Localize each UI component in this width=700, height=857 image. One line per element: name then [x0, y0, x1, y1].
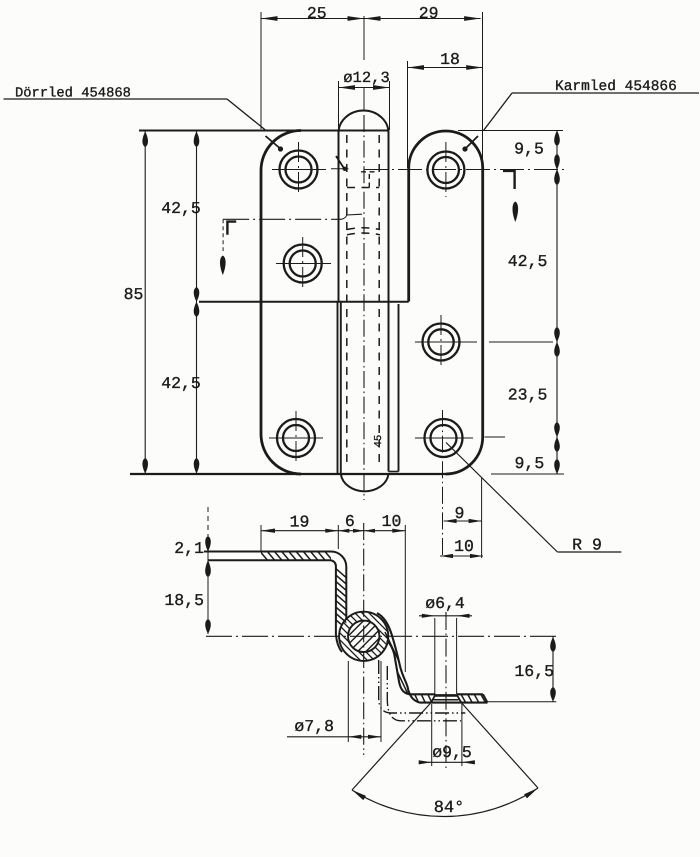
countersink ø6.4 mouth thick line (top face)	[434, 694, 458, 697]
84 degree cone left line	[352, 703, 431, 790]
barrel lower-left double edges	[337, 302, 339, 474]
84 degree arc	[352, 788, 538, 817]
section horizontal centerline (chain)	[206, 635, 557, 637]
front view: frame-leaf plate (Karmled) outline with R9 dome and corner	[409, 131, 483, 474]
countersunk hole centerline	[445, 612, 447, 768]
dashed internal step y=187	[347, 187, 379, 189]
front view: bottom edge line of plates (with extensions)	[130, 473, 446, 475]
svg-text:ø7,8: ø7,8	[294, 717, 334, 736]
svg-text:9,5: 9,5	[515, 454, 545, 473]
svg-text:29: 29	[419, 4, 439, 23]
knuckle/barrel ø12.3: left edge upper	[338, 131, 340, 302]
hole 2 crosshair	[276, 263, 331, 265]
svg-text:18: 18	[440, 50, 460, 69]
front view: door-leaf plate (Dörrled) outline	[261, 131, 301, 475]
section mark left: thick L	[227, 222, 236, 235]
dimension 19/6/10 line	[261, 530, 405, 532]
svg-text:10: 10	[382, 512, 402, 531]
hidden sleeve top arcs (dashed)	[347, 228, 380, 230]
barrel top dome	[339, 111, 389, 133]
section: door leaf bottom face	[208, 559, 330, 561]
svg-text:ø6,4: ø6,4	[425, 594, 465, 613]
barrel bottom dome	[341, 474, 389, 491]
surface check mark on door leaf	[266, 136, 280, 148]
extension for 18	[407, 61, 409, 168]
svg-text:2,1: 2,1	[174, 539, 204, 558]
dimension 85 line	[144, 132, 146, 474]
countersink left slant	[431, 695, 435, 703]
lower knuckle extra edge (frame leaf curl)	[398, 304, 400, 472]
svg-text:23,5: 23,5	[508, 386, 548, 405]
section mark left: arrow teardrop	[220, 256, 226, 276]
dimension 18 line	[408, 67, 483, 69]
ext lines for 19/6/10	[260, 525, 262, 552]
ext bottom right	[491, 473, 564, 475]
section: curl outer circle	[339, 612, 388, 661]
frame hole 3 crosshair, centerline extended to 9/10 dims	[415, 437, 473, 439]
svg-text:10: 10	[454, 537, 474, 556]
front view: top edge line of door leaf (with extension to 85-dim)	[139, 129, 389, 131]
barrel right edge	[388, 131, 390, 472]
ext mid right	[489, 341, 553, 343]
dimension 42.5+42.5 line	[196, 132, 198, 474]
frame leaf hole 3	[425, 419, 463, 457]
dimension 25/29 line	[261, 18, 481, 20]
ext right edge down	[481, 478, 483, 558]
svg-text:25: 25	[307, 4, 327, 23]
section: door leaf inner bend + left edge of vertical web	[330, 560, 342, 652]
frame hole 2 crosshair	[415, 341, 477, 343]
small check on barrel edge	[331, 168, 349, 170]
surface check mark on frame leaf	[467, 136, 479, 148]
hidden pin lines inside barrel (dashed)	[346, 135, 348, 468]
svg-text:42,5: 42,5	[161, 374, 201, 393]
countersink inner line	[434, 699, 459, 701]
svg-text:16,5: 16,5	[514, 662, 554, 681]
door leaf hole 1	[280, 151, 318, 189]
svg-text:9: 9	[455, 504, 465, 523]
section: leaf end slant	[483, 694, 488, 702]
section mark right: thick L	[503, 171, 515, 189]
door leaf hole 3	[277, 419, 315, 457]
door leaf hole 2	[284, 245, 322, 283]
phantom position line B (dash-dot-dot)	[387, 666, 461, 721]
svg-text:9,5: 9,5	[514, 140, 544, 159]
section: frame leaf outer edge (wraps curl top-right, down to flat bottom face)	[377, 613, 488, 703]
dimension 9	[444, 520, 482, 522]
section: flat top face right of countersink	[457, 693, 483, 695]
svg-text:R 9: R 9	[572, 536, 602, 555]
long chain centerline through frame hole 1 to 9.5 dim	[364, 169, 564, 171]
svg-text:19: 19	[290, 513, 310, 532]
phantom position line A (dash-dot-dot)	[379, 660, 466, 713]
extension line left plate edge	[260, 12, 262, 129]
section mark right: arrow teardrop	[512, 202, 518, 223]
svg-text:18,5: 18,5	[164, 591, 204, 610]
leader R 9	[446, 443, 557, 553]
section: pin ø7.8	[348, 621, 379, 652]
extensions for ø12.3	[338, 81, 340, 130]
hole 1 crosshair	[272, 169, 326, 171]
barrel vertical centerline (chain)	[363, 115, 365, 500]
section: door leaf outer bend + right edge of vertical web	[331, 552, 346, 621]
frame leaf hole 1	[427, 152, 464, 189]
small step at knuckle bottom right	[389, 471, 399, 473]
svg-text:ø9,5: ø9,5	[432, 743, 472, 762]
svg-text:45: 45	[373, 435, 385, 448]
countersink right slant	[457, 695, 462, 703]
dimension ø12,3 line	[339, 87, 390, 89]
section: frame leaf inner edge (from curl to flat top face)	[387, 641, 436, 695]
right dim line	[556, 131, 558, 475]
ext top edge right	[458, 130, 563, 132]
dimension 10 (lower)	[440, 555, 483, 557]
section: door leaf top face	[204, 551, 331, 553]
ext hole3 right (short)	[485, 436, 506, 438]
small dashed box in upper barrel	[368, 172, 370, 188]
svg-text:42,5: 42,5	[508, 252, 548, 271]
front view: mid horizontal joint line at 42.5 split	[199, 301, 409, 303]
section mark left: thin corner leg	[222, 219, 224, 251]
svg-text:85: 85	[124, 285, 144, 304]
84 degree cone right line	[461, 703, 538, 788]
svg-text:84°: 84°	[434, 799, 465, 818]
pin vertical centerline	[363, 523, 365, 755]
fold line chain on door leaf with jog	[223, 218, 341, 220]
hole 3 crosshair	[269, 437, 323, 439]
svg-text:ø12,3: ø12,3	[343, 69, 390, 87]
svg-text:6: 6	[345, 512, 355, 531]
extension line right plate edge	[482, 12, 484, 168]
frame leaf hole 2	[423, 324, 460, 361]
frame hole 1 vertical centerline	[445, 142, 447, 197]
svg-text:42,5: 42,5	[161, 199, 201, 218]
